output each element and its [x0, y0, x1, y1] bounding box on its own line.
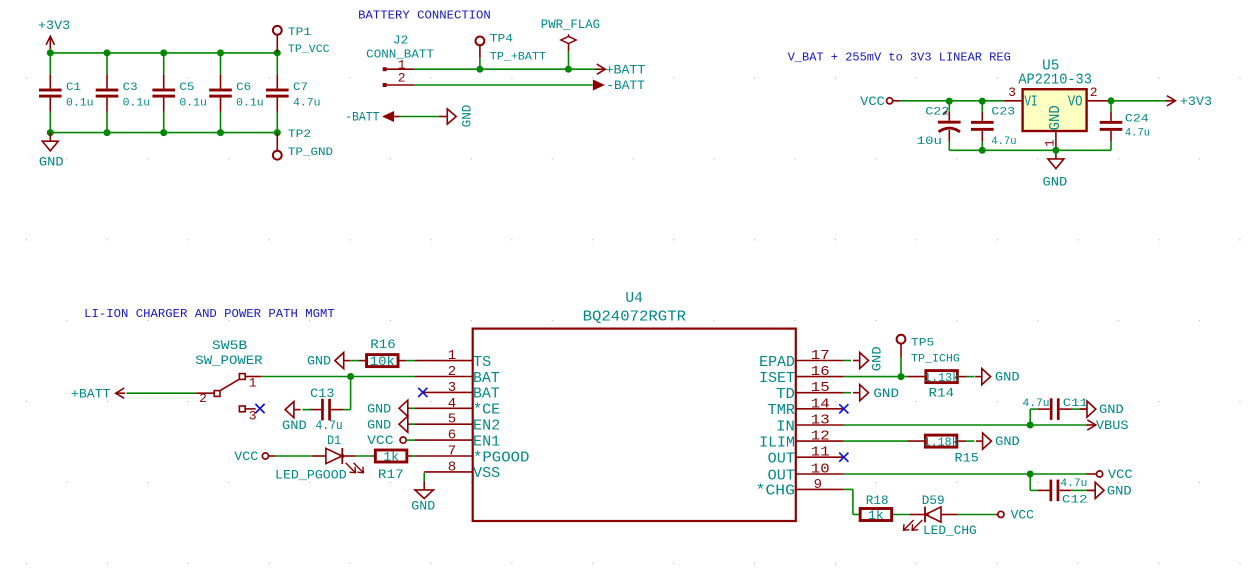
- svg-text:R16: R16: [370, 337, 395, 352]
- svg-text:1: 1: [1042, 139, 1057, 147]
- svg-text:4: 4: [448, 396, 456, 412]
- svg-text:LED_PGOOD: LED_PGOOD: [275, 468, 347, 483]
- svg-text:C22: C22: [925, 107, 949, 119]
- svg-text:*PGOOD: *PGOOD: [473, 450, 529, 466]
- svg-text:C11: C11: [1063, 398, 1088, 410]
- svg-text:10k: 10k: [370, 355, 395, 369]
- svg-text:C13: C13: [310, 386, 334, 401]
- svg-text:TD: TD: [776, 387, 795, 403]
- svg-text:14: 14: [811, 396, 830, 412]
- svg-text:BAT: BAT: [473, 371, 500, 387]
- svg-text:0.1u: 0.1u: [236, 97, 264, 109]
- svg-text:TP_ICHG: TP_ICHG: [911, 354, 960, 366]
- svg-text:GND: GND: [995, 435, 1020, 449]
- svg-text:BAT: BAT: [473, 387, 500, 403]
- svg-text:0.1u: 0.1u: [123, 97, 151, 109]
- svg-text:VCC: VCC: [367, 434, 394, 448]
- svg-text:GND: GND: [460, 105, 474, 128]
- svg-text:GND: GND: [870, 346, 884, 371]
- svg-text:LI-ION CHARGER AND POWER PATH: LI-ION CHARGER AND POWER PATH MGMT: [84, 307, 335, 321]
- svg-text:C6: C6: [236, 82, 251, 94]
- svg-text:VCC: VCC: [1011, 509, 1034, 523]
- svg-text:GND: GND: [307, 355, 331, 369]
- svg-text:4.7u: 4.7u: [1125, 128, 1150, 140]
- svg-text:GND: GND: [873, 387, 899, 401]
- svg-text:TP4: TP4: [490, 33, 514, 45]
- svg-text:R18: R18: [866, 493, 889, 508]
- svg-text:D59: D59: [922, 493, 945, 508]
- svg-text:1: 1: [249, 376, 257, 391]
- svg-text:TMR: TMR: [768, 403, 796, 419]
- svg-text:TS: TS: [473, 355, 491, 371]
- svg-text:EN1: EN1: [473, 434, 500, 450]
- svg-text:15: 15: [811, 380, 830, 396]
- svg-text:3: 3: [1008, 85, 1016, 100]
- svg-text:2: 2: [1090, 85, 1098, 100]
- svg-text:GND: GND: [367, 418, 391, 432]
- svg-text:LED_CHG: LED_CHG: [923, 523, 977, 538]
- svg-text:EPAD: EPAD: [759, 355, 795, 371]
- svg-text:1k: 1k: [868, 509, 884, 523]
- svg-text:1k: 1k: [383, 451, 399, 465]
- svg-text:GND: GND: [282, 419, 307, 433]
- svg-text:8: 8: [448, 459, 456, 475]
- svg-text:BATTERY CONNECTION: BATTERY CONNECTION: [358, 9, 491, 23]
- svg-text:+BATT: +BATT: [606, 63, 646, 77]
- svg-text:*CHG: *CHG: [756, 484, 795, 500]
- svg-text:-BATT: -BATT: [606, 79, 645, 93]
- svg-text:C24: C24: [1125, 114, 1149, 126]
- svg-text:1.18k: 1.18k: [924, 436, 959, 450]
- svg-text:4.7u: 4.7u: [316, 418, 343, 433]
- svg-text:1: 1: [448, 348, 456, 364]
- svg-text:IN: IN: [776, 419, 795, 435]
- svg-text:5: 5: [448, 412, 456, 428]
- svg-text:TP_VCC: TP_VCC: [288, 44, 330, 56]
- svg-text:GND: GND: [1048, 105, 1064, 130]
- svg-text:C7: C7: [293, 82, 308, 94]
- svg-text:C5: C5: [179, 82, 194, 94]
- svg-text:ILIM: ILIM: [759, 435, 795, 451]
- svg-text:TP_+BATT: TP_+BATT: [490, 51, 547, 63]
- svg-text:2: 2: [448, 364, 456, 380]
- svg-text:*CE: *CE: [473, 403, 500, 419]
- svg-text:4.7u: 4.7u: [1023, 398, 1050, 410]
- svg-text:GND: GND: [1099, 403, 1124, 417]
- svg-text:R17: R17: [378, 467, 404, 482]
- svg-text:GND: GND: [39, 156, 64, 170]
- svg-text:BQ24072RGTR: BQ24072RGTR: [583, 310, 687, 326]
- svg-text:R14: R14: [929, 386, 955, 401]
- svg-text:4.7u: 4.7u: [1060, 478, 1087, 490]
- svg-text:-BATT: -BATT: [345, 111, 380, 125]
- svg-text:VSS: VSS: [473, 466, 500, 482]
- svg-text:7: 7: [448, 444, 456, 460]
- svg-text:R15: R15: [955, 451, 979, 466]
- svg-text:+3V3: +3V3: [38, 19, 70, 33]
- svg-text:OUT: OUT: [768, 452, 796, 468]
- svg-text:TP1: TP1: [288, 27, 312, 39]
- svg-text:3: 3: [448, 380, 456, 396]
- svg-text:D1: D1: [327, 433, 341, 448]
- svg-text:GND: GND: [367, 402, 391, 416]
- svg-text:1.13k: 1.13k: [924, 371, 959, 385]
- svg-text:3: 3: [249, 408, 257, 423]
- svg-text:TP_GND: TP_GND: [288, 147, 334, 159]
- svg-text:OUT: OUT: [768, 468, 796, 484]
- svg-text:ISET: ISET: [759, 371, 795, 387]
- svg-text:VCC: VCC: [234, 450, 258, 464]
- svg-text:VCC: VCC: [1108, 468, 1133, 482]
- svg-text:V_BAT + 255mV to 3V3 LINEAR RE: V_BAT + 255mV to 3V3 LINEAR REG: [788, 50, 1011, 64]
- svg-text:VO: VO: [1068, 95, 1083, 111]
- svg-text:6: 6: [448, 428, 456, 444]
- svg-text:GND: GND: [411, 499, 435, 513]
- svg-text:0.1u: 0.1u: [66, 97, 94, 109]
- svg-text:SW5B: SW5B: [212, 338, 248, 353]
- svg-text:VCC: VCC: [860, 95, 885, 109]
- svg-text:2: 2: [398, 71, 406, 86]
- svg-text:U4: U4: [625, 291, 643, 307]
- svg-text:4.7u: 4.7u: [293, 97, 321, 109]
- svg-text:C12: C12: [1062, 494, 1088, 506]
- svg-text:VI: VI: [1024, 95, 1037, 111]
- svg-text:SW_POWER: SW_POWER: [195, 353, 263, 368]
- svg-text:PWR_FLAG: PWR_FLAG: [541, 18, 600, 32]
- svg-text:10: 10: [811, 462, 830, 478]
- svg-text:+BATT: +BATT: [71, 387, 111, 401]
- svg-text:0.1u: 0.1u: [179, 97, 207, 109]
- svg-text:4.7u: 4.7u: [991, 136, 1016, 148]
- svg-text:10u: 10u: [917, 136, 942, 148]
- svg-text:9: 9: [814, 477, 822, 493]
- svg-text:12: 12: [811, 429, 830, 445]
- svg-text:C1: C1: [66, 82, 81, 94]
- svg-text:17: 17: [811, 348, 830, 364]
- svg-text:11: 11: [811, 445, 830, 461]
- svg-text:C23: C23: [991, 107, 1015, 119]
- svg-text:TP2: TP2: [288, 129, 311, 141]
- svg-text:16: 16: [811, 364, 830, 380]
- svg-text:GND: GND: [1107, 485, 1132, 499]
- svg-text:VBUS: VBUS: [1096, 419, 1129, 433]
- svg-text:C3: C3: [123, 82, 138, 94]
- svg-text:+3V3: +3V3: [1180, 95, 1212, 109]
- svg-text:GND: GND: [1043, 175, 1068, 189]
- svg-text:AP2210-33: AP2210-33: [1018, 72, 1092, 88]
- svg-text:TP5: TP5: [911, 338, 934, 350]
- svg-text:13: 13: [811, 413, 830, 429]
- svg-text:GND: GND: [995, 371, 1020, 385]
- svg-text:EN2: EN2: [473, 419, 500, 435]
- svg-text:J2: J2: [393, 34, 409, 48]
